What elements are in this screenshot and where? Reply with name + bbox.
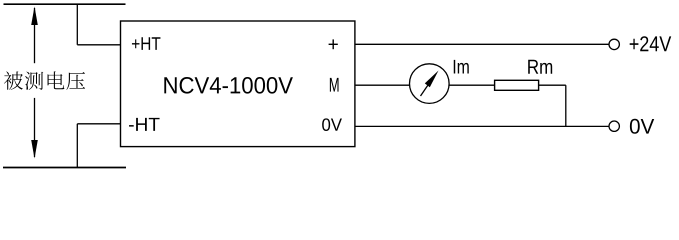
label NCV4-1000V [164,77,293,94]
module U1 NCV4-1000V box [121,21,355,147]
label Im [454,60,469,74]
wire -HT drop to bottom bar [76,124,78,168]
wire bottom bus bar [3,167,126,169]
meter Im circle [410,64,450,104]
label Rm [528,60,552,74]
label +24V [630,36,672,51]
terminal 0V circle [609,121,619,131]
wire +HT to module [77,44,121,46]
pin label + [329,39,338,49]
label char 压 [66,72,85,90]
wire + pin to +24V terminal [355,43,609,45]
label char 被 [4,71,23,89]
terminal +24V circle [609,39,619,49]
wire resistor Rm to corner [539,84,566,86]
wire measured-voltage arrow shaft [34,8,36,63]
label char 测 [25,72,43,90]
wire M pin to meter [355,84,410,86]
label 被测电压 background mask [1,64,87,98]
pin label -HT [129,118,160,131]
label char 电 [48,71,65,89]
wire corner down to 0V rail [565,85,567,126]
meter needle shaft [421,85,429,96]
wire -HT to module [77,123,121,125]
arrowhead top of measured-voltage arrow [31,7,38,26]
pin label M [330,78,339,92]
wire +HT drop from top bar [76,4,78,45]
wire top bus bar [4,3,126,5]
resistor Rm body [495,80,539,90]
meter needle arrowhead [425,71,439,88]
arrowhead bottom of measured-voltage arrow [31,140,38,159]
wire 0V pin to 0V terminal [355,125,609,127]
pin label 0V [322,118,342,131]
wire meter to resistor Rm [449,84,495,86]
pin label +HT [132,37,160,50]
label 0V terminal [630,119,654,134]
